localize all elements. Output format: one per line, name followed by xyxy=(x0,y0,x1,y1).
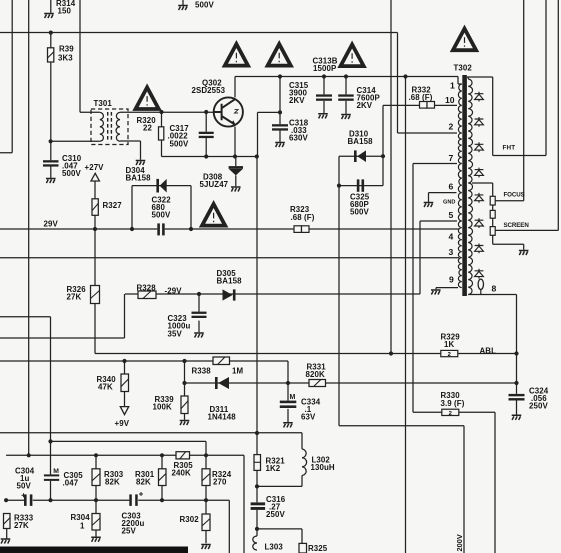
svg-text:BA158: BA158 xyxy=(126,174,152,183)
svg-text:500V: 500V xyxy=(62,169,81,178)
svg-text:82K: 82K xyxy=(105,478,120,487)
svg-text:63V: 63V xyxy=(301,413,316,422)
svg-text:SCREEN: SCREEN xyxy=(504,222,530,229)
svg-text:500V: 500V xyxy=(152,211,171,220)
svg-text:R302: R302 xyxy=(180,515,200,524)
svg-text:3.9 (F): 3.9 (F) xyxy=(441,399,465,408)
svg-text:250V: 250V xyxy=(529,402,548,411)
svg-text:27K: 27K xyxy=(67,293,82,302)
svg-text:2KV: 2KV xyxy=(357,101,373,110)
svg-text:FHT: FHT xyxy=(503,145,516,152)
svg-text:BA158: BA158 xyxy=(348,137,374,146)
svg-text:BA158: BA158 xyxy=(217,277,243,286)
svg-text:35V: 35V xyxy=(168,329,183,338)
svg-text:2SD2553: 2SD2553 xyxy=(192,86,226,95)
svg-text:9: 9 xyxy=(449,275,454,285)
svg-text:22: 22 xyxy=(143,124,152,133)
svg-text:2: 2 xyxy=(449,122,454,132)
svg-text:1K: 1K xyxy=(444,340,454,349)
svg-text:1: 1 xyxy=(450,81,455,91)
svg-text:R325: R325 xyxy=(308,544,328,553)
svg-text:M: M xyxy=(53,468,59,475)
svg-text:+9V: +9V xyxy=(115,419,130,428)
svg-text:1K2: 1K2 xyxy=(266,464,281,473)
svg-text:FOCUS: FOCUS xyxy=(504,192,525,199)
svg-text:10: 10 xyxy=(445,95,455,105)
svg-text:2: 2 xyxy=(449,411,452,417)
svg-text:270: 270 xyxy=(213,478,227,487)
svg-text:R328: R328 xyxy=(137,283,157,292)
svg-text:ABL: ABL xyxy=(480,347,497,356)
svg-text:L303: L303 xyxy=(265,543,284,552)
svg-text:R327: R327 xyxy=(103,201,123,210)
svg-text:8: 8 xyxy=(492,284,497,294)
svg-text:R338: R338 xyxy=(192,367,212,376)
svg-text:2: 2 xyxy=(448,352,451,358)
svg-text:820K: 820K xyxy=(306,370,325,379)
svg-text:M: M xyxy=(290,394,296,401)
svg-text:240K: 240K xyxy=(172,469,191,478)
svg-text:25V: 25V xyxy=(122,527,137,536)
svg-text:1: 1 xyxy=(80,522,85,531)
svg-text:.68 (F): .68 (F) xyxy=(409,93,433,102)
svg-text:7: 7 xyxy=(449,153,454,163)
svg-text:1N4148: 1N4148 xyxy=(208,413,237,422)
svg-text:27K: 27K xyxy=(14,521,29,530)
svg-text:500V: 500V xyxy=(170,139,189,148)
svg-text:5JUZ47: 5JUZ47 xyxy=(200,180,229,189)
svg-text:47K: 47K xyxy=(98,383,113,392)
svg-text:T302: T302 xyxy=(454,64,473,73)
svg-text:R39: R39 xyxy=(59,45,74,54)
svg-text:50V: 50V xyxy=(17,482,32,491)
svg-text:130uH: 130uH xyxy=(311,463,335,472)
svg-text:500V: 500V xyxy=(350,208,369,217)
svg-text:2KV: 2KV xyxy=(289,96,305,105)
svg-text:5: 5 xyxy=(449,210,454,220)
svg-text:-29V: -29V xyxy=(165,287,183,296)
svg-text:250V: 250V xyxy=(266,510,285,519)
svg-text:.68 (F): .68 (F) xyxy=(291,213,315,222)
svg-text:200V: 200V xyxy=(455,534,464,551)
svg-text:100K: 100K xyxy=(153,403,172,412)
svg-text:500V: 500V xyxy=(195,1,214,10)
svg-text:150: 150 xyxy=(58,7,72,16)
svg-text:3: 3 xyxy=(449,247,454,257)
svg-text:4: 4 xyxy=(449,232,454,242)
svg-text:82K: 82K xyxy=(136,478,151,487)
svg-text:29V: 29V xyxy=(44,220,59,229)
svg-text:T301: T301 xyxy=(94,99,113,108)
svg-text:6: 6 xyxy=(449,182,454,192)
svg-text:GND: GND xyxy=(443,199,455,205)
svg-text:+27V: +27V xyxy=(85,163,105,172)
svg-text:630V: 630V xyxy=(289,134,308,143)
svg-text:1500P: 1500P xyxy=(313,64,336,73)
svg-text:1M: 1M xyxy=(232,367,243,376)
svg-text:3K3: 3K3 xyxy=(58,54,73,63)
svg-text:.047: .047 xyxy=(63,479,79,488)
